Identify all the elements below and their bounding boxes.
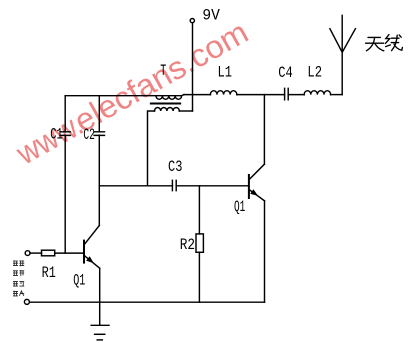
label input text 4 lines (tiny CJK) xyxy=(13,260,24,296)
9V supply terminal xyxy=(190,19,194,23)
svg-text:Q1: Q1 xyxy=(234,198,245,216)
wire L1 to C4 xyxy=(237,94,285,96)
transistor Q1 right collector diagonal xyxy=(249,164,264,179)
transistor Q1 left base bar xyxy=(83,241,85,263)
resistor R1 body xyxy=(42,250,55,256)
wire secondary right lead xyxy=(179,110,192,112)
transistor Q1 right base bar xyxy=(248,175,250,198)
arrowhead Q1 right emitter xyxy=(250,189,258,196)
transformer T secondary winding xyxy=(155,108,180,112)
transformer T primary winding xyxy=(156,96,182,99)
wire R2 branch lower xyxy=(198,252,200,302)
svg-text:C4: C4 xyxy=(278,64,293,82)
svg-text:C2: C2 xyxy=(83,126,95,144)
wire C3 net horizontal xyxy=(99,185,172,187)
inductor L1 xyxy=(210,91,236,95)
svg-text:L2: L2 xyxy=(307,63,322,81)
resistor R2 body xyxy=(196,234,203,252)
capacitor C2 branch upper xyxy=(98,96,100,132)
input terminal upper xyxy=(25,251,30,256)
wire R1 to Q1 left base xyxy=(55,252,84,254)
watermark www.elecfans.com xyxy=(10,14,254,172)
ground bar 2 xyxy=(95,333,105,335)
antenna V element xyxy=(330,29,356,53)
antenna mast xyxy=(341,15,343,94)
arrowhead Q1 left emitter xyxy=(86,256,94,263)
wire collector drop to RF rail xyxy=(263,95,265,165)
wire C4 to L2 xyxy=(288,94,304,96)
capacitor C3 plates xyxy=(172,180,176,190)
wire C2 branch lower to collector xyxy=(98,135,100,225)
ground bar 3 xyxy=(97,339,102,341)
capacitor C1 branch upper xyxy=(64,96,66,132)
wire L2 to antenna xyxy=(331,94,343,96)
wire Q1 left emitter down xyxy=(99,268,101,302)
capacitor C2 plates xyxy=(94,132,104,136)
svg-text:9V: 9V xyxy=(202,7,220,25)
transistor Q1 left collector diagonal xyxy=(85,226,99,244)
capacitor C1 plates xyxy=(60,132,70,136)
transistor Q1 right emitter diagonal xyxy=(249,190,264,201)
wire ground stub xyxy=(99,302,101,325)
svg-text:Q1: Q1 xyxy=(73,272,85,290)
wire secondary left lead down xyxy=(148,111,155,186)
wire R2 branch upper xyxy=(198,186,200,234)
svg-text:C1: C1 xyxy=(50,126,63,144)
svg-text:R2: R2 xyxy=(180,236,195,254)
capacitor C4 xyxy=(285,88,289,100)
label 天线 antenna (drawn strokes) xyxy=(366,35,403,51)
wire top rail left segment xyxy=(65,95,184,96)
transistor Q1 left emitter diagonal xyxy=(85,256,100,268)
svg-text:L1: L1 xyxy=(218,63,233,81)
svg-text:T: T xyxy=(160,62,166,80)
input terminal lower xyxy=(24,299,29,304)
wire bottom rail xyxy=(30,301,265,303)
ground bar 1 xyxy=(91,324,109,326)
wire 9V vertical xyxy=(192,23,194,111)
wire C1 branch lower xyxy=(64,135,66,253)
transformer T core xyxy=(151,103,180,105)
wire Q1 right emitter down xyxy=(264,201,266,302)
wire terminal to R1 xyxy=(30,252,42,254)
svg-text:R1: R1 xyxy=(42,264,56,282)
inductor L2 xyxy=(304,91,330,95)
svg-text:C3: C3 xyxy=(168,158,182,176)
wire rail between T and L1 xyxy=(184,94,210,96)
wire C3 to Q1 right base xyxy=(176,185,249,187)
